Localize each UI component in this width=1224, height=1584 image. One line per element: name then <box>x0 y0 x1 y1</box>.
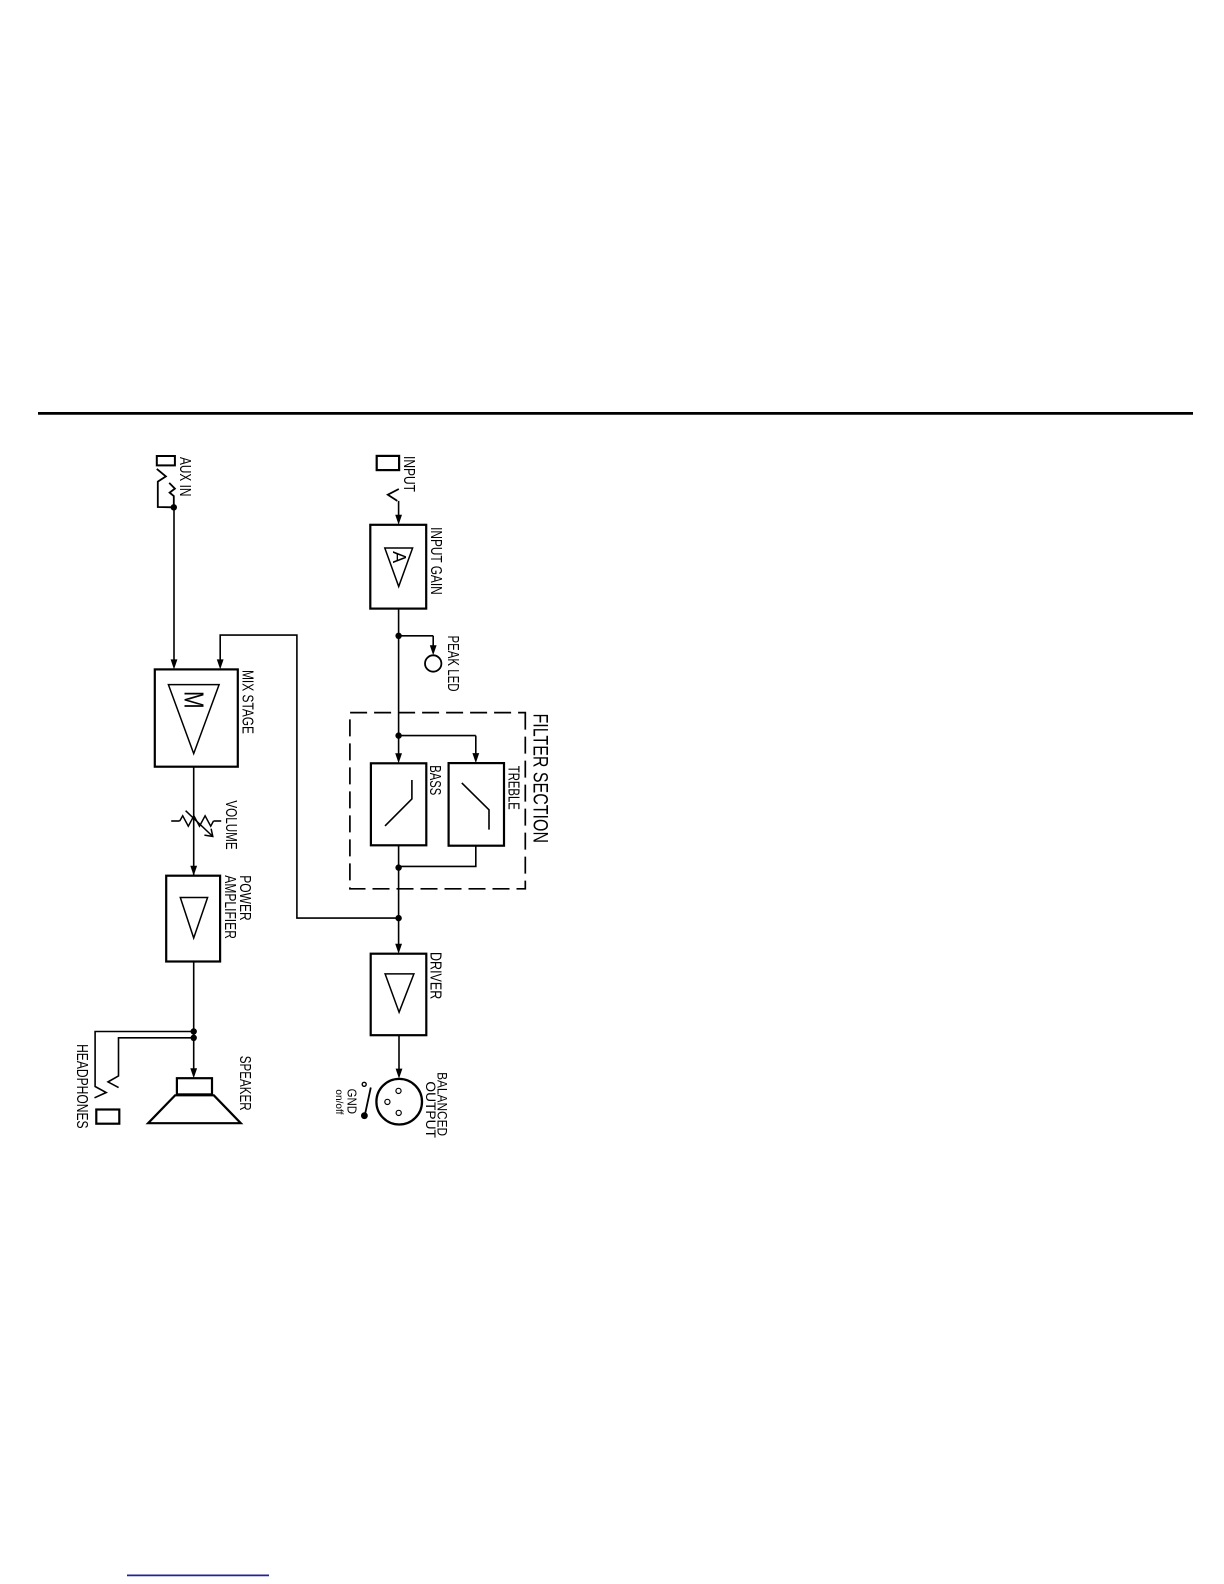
svg-text:MIX STAGE: MIX STAGE <box>239 670 256 734</box>
svg-text:on/off: on/off <box>333 1089 344 1114</box>
svg-text:SPEAKER: SPEAKER <box>236 1056 253 1111</box>
svg-text:AUX IN: AUX IN <box>176 457 193 496</box>
svg-text:FILTER SECTION: FILTER SECTION <box>528 714 551 844</box>
svg-text:OUTPUT: OUTPUT <box>423 1081 439 1138</box>
svg-text:TREBLE: TREBLE <box>505 766 522 810</box>
svg-text:DRIVER: DRIVER <box>427 952 444 999</box>
svg-text:AMPLIFIER: AMPLIFIER <box>221 875 238 939</box>
svg-text:M: M <box>179 691 210 709</box>
svg-text:A: A <box>389 551 409 563</box>
svg-text:VOLUME: VOLUME <box>222 800 239 849</box>
svg-text:PEAK LED: PEAK LED <box>444 636 461 692</box>
svg-text:HEADPHONES: HEADPHONES <box>73 1044 90 1129</box>
svg-text:INPUT GAIN: INPUT GAIN <box>427 527 444 595</box>
svg-text:BASS: BASS <box>426 765 443 795</box>
svg-text:GND: GND <box>345 1089 360 1114</box>
svg-text:INPUT: INPUT <box>400 456 417 492</box>
